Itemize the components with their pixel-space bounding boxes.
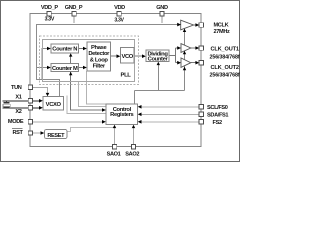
svg-text:CLK_OUT1: CLK_OUT1 xyxy=(211,46,239,52)
svg-text:Phase: Phase xyxy=(91,45,107,51)
svg-text:SCL/FS0: SCL/FS0 xyxy=(207,105,228,111)
svg-text:Registers: Registers xyxy=(110,112,133,118)
svg-text:CLK_OUT2: CLK_OUT2 xyxy=(211,65,239,71)
svg-text:TUN: TUN xyxy=(11,85,22,91)
svg-text:Counter N: Counter N xyxy=(52,47,77,53)
svg-text:X1: X1 xyxy=(15,95,21,101)
svg-text:GND_P: GND_P xyxy=(65,5,83,11)
svg-text:SDA/FS1: SDA/FS1 xyxy=(207,113,228,119)
svg-text:256/384/768fs: 256/384/768fs xyxy=(210,73,241,79)
svg-text:GND: GND xyxy=(156,5,168,11)
svg-text:RESET: RESET xyxy=(47,133,65,139)
svg-text:Counter: Counter xyxy=(148,57,169,63)
svg-text:VCXO: VCXO xyxy=(46,102,62,108)
svg-text:MODE: MODE xyxy=(8,119,24,125)
svg-text:SAO2: SAO2 xyxy=(125,151,139,157)
svg-text:X2: X2 xyxy=(15,109,21,115)
svg-text:3.3V: 3.3V xyxy=(45,17,55,23)
svg-text:VCO: VCO xyxy=(121,54,133,60)
svg-text:& Loop: & Loop xyxy=(90,57,109,63)
svg-text:Counter M: Counter M xyxy=(52,66,78,72)
svg-text:Detector: Detector xyxy=(88,51,110,57)
svg-text:FS2: FS2 xyxy=(213,120,222,126)
svg-text:VDD_P: VDD_P xyxy=(41,5,59,11)
svg-text:PLL: PLL xyxy=(121,72,132,78)
svg-text:256/384/768fs: 256/384/768fs xyxy=(210,54,241,60)
svg-text:3.3V: 3.3V xyxy=(114,17,124,23)
svg-text:27MHz: 27MHz xyxy=(214,29,231,35)
svg-text:SAO1: SAO1 xyxy=(107,151,121,157)
svg-text:Filter: Filter xyxy=(93,64,106,70)
svg-text:RST: RST xyxy=(12,130,23,136)
svg-text:MCLK: MCLK xyxy=(214,22,229,28)
svg-text:VDD: VDD xyxy=(114,5,125,11)
